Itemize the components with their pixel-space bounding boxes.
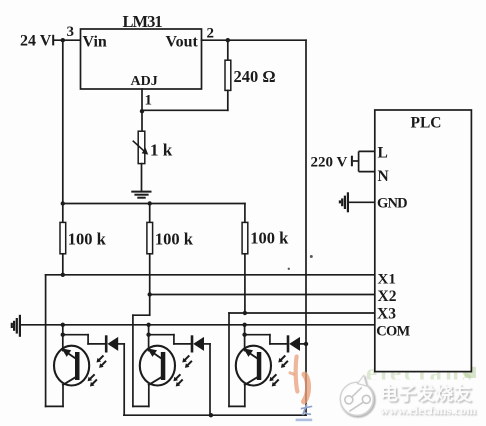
wire collector drop cell 2 bbox=[148, 385, 150, 407]
wire LED anode drop cell 1 bbox=[118, 344, 124, 415]
svg-text:Vin: Vin bbox=[83, 34, 107, 51]
watermark green elecfans ghost bbox=[366, 360, 475, 387]
wire collector drop cell 3 bbox=[244, 385, 246, 407]
wire X1 corner leg down bbox=[45, 275, 47, 407]
junction dot R1 to X1 bbox=[61, 273, 65, 277]
svg-text:3: 3 bbox=[67, 24, 75, 40]
wire GND pin bbox=[349, 201, 375, 203]
svg-text:X1: X1 bbox=[378, 272, 396, 288]
junction dot LED branch cell 3 bbox=[242, 333, 246, 337]
junction dot rail left bbox=[61, 201, 65, 205]
svg-text:100 k: 100 k bbox=[250, 229, 289, 248]
transistor Q3 phototransistor bbox=[236, 346, 271, 386]
svg-text:L: L bbox=[378, 145, 388, 162]
wire emitter loop bottom cell 3 bbox=[229, 405, 245, 407]
svg-text:PLC: PLC bbox=[411, 115, 442, 132]
transistor Q1 phototransistor bbox=[54, 346, 89, 386]
wire ADJ pin 1 stub down to pot bbox=[141, 89, 143, 131]
watermark text dianzifashaoyou bbox=[380, 383, 474, 406]
svg-text:电子发烧友: 电子发烧友 bbox=[380, 383, 472, 404]
svg-text:220 V: 220 V bbox=[311, 155, 348, 171]
junction dot R2 to X2 bbox=[148, 292, 152, 296]
resistor 240 ohm bbox=[225, 60, 231, 90]
resistor R2 100k bbox=[147, 204, 153, 295]
junction dot LED branch cell 1 bbox=[61, 333, 65, 337]
svg-text:X3: X3 bbox=[377, 306, 396, 323]
wire X1 line bbox=[46, 274, 375, 276]
wire emitter riser cell 1 bbox=[62, 325, 64, 351]
wire X2 line bbox=[150, 294, 375, 296]
svg-text:24 V: 24 V bbox=[20, 33, 52, 50]
resistor R3 100k bbox=[242, 204, 248, 314]
wire LED anode drop cell 2 bbox=[204, 344, 210, 415]
wire LED branch cell 1 bbox=[63, 335, 106, 344]
svg-text:100 k: 100 k bbox=[68, 230, 107, 249]
PLC box bbox=[375, 110, 472, 372]
svg-text:240 Ω: 240 Ω bbox=[234, 67, 276, 86]
svg-text:1 k: 1 k bbox=[150, 141, 173, 160]
wire supply rail horizontal bbox=[63, 203, 245, 205]
wire pot to ground bbox=[141, 164, 143, 192]
diode LED D3 bbox=[288, 337, 300, 352]
wire COM line bbox=[21, 324, 375, 326]
resistor R1 100k bbox=[60, 204, 66, 275]
wire emitter loop bottom cell 2 bbox=[133, 405, 149, 407]
wire LED anode to right rail cell 3 bbox=[300, 343, 306, 345]
speck noise bbox=[288, 255, 313, 270]
junction dot 24V rail tap bbox=[61, 38, 65, 42]
svg-text:Vout: Vout bbox=[166, 34, 199, 51]
wire left rail down from 24V to resistor rail bbox=[62, 40, 64, 203]
node 220V supply terminal bbox=[311, 155, 353, 171]
wire LED branch cell 3 bbox=[245, 335, 288, 344]
node 24V supply terminal bbox=[20, 33, 54, 50]
watermark green square bbox=[465, 367, 476, 378]
op-amp U1 LM31 regulator box bbox=[81, 29, 202, 89]
wire emitter riser cell 3 bbox=[244, 325, 246, 351]
junction dot rail middle bbox=[148, 201, 152, 205]
junction dot LED branch cell 2 bbox=[146, 333, 150, 337]
wire collector drop cell 1 bbox=[62, 385, 64, 407]
wire emitter loop bottom cell 1 bbox=[46, 405, 63, 407]
svg-text:X2: X2 bbox=[378, 288, 397, 305]
junction dot LED to rail cell 3 bbox=[304, 342, 308, 346]
wire 24V to Vin pin bbox=[54, 39, 80, 41]
watermark blue fragment bbox=[296, 404, 313, 421]
ground pot earth bbox=[132, 192, 150, 198]
wire bottom LED rail bbox=[124, 414, 306, 416]
junction dot ADJ node bbox=[140, 109, 144, 113]
wire LED branch cell 2 bbox=[149, 335, 192, 344]
wire Vout pin 2 to right rail bbox=[202, 39, 307, 41]
logo elecfans gear bbox=[340, 375, 374, 416]
wire 240 ohm bottom down bbox=[227, 90, 229, 110]
svg-text:www.elecfans.com: www.elecfans.com bbox=[380, 403, 476, 417]
junction dot R3 to X3 bbox=[243, 311, 247, 315]
junction dot 240 ohm tap bbox=[226, 38, 230, 42]
watermark orange stroke bbox=[290, 357, 308, 402]
wire X2 jog down bbox=[133, 295, 150, 407]
svg-text:N: N bbox=[378, 168, 389, 185]
svg-text:1: 1 bbox=[145, 93, 153, 109]
light arrows cell 2 bbox=[173, 356, 191, 386]
svg-text:COM: COM bbox=[376, 324, 410, 340]
diode LED D2 bbox=[192, 337, 204, 352]
wire emitter riser cell 2 bbox=[148, 325, 150, 351]
junction dot COM tap cell 2 bbox=[146, 323, 150, 327]
transistor Q2 phototransistor bbox=[140, 346, 175, 386]
ground GND earth bbox=[340, 192, 348, 212]
wire 220V stub bbox=[353, 160, 359, 162]
svg-text:ADJ: ADJ bbox=[131, 74, 158, 89]
wire 220V bracket to L and N bbox=[359, 151, 375, 171]
junction dot COM tap cell 1 bbox=[61, 323, 65, 327]
potentiometer 1 k bbox=[133, 131, 148, 163]
wire X3 line bbox=[229, 312, 375, 314]
wire down to 240 ohm bbox=[227, 40, 229, 60]
svg-text:2: 2 bbox=[207, 26, 215, 42]
light arrows cell 3 bbox=[269, 356, 287, 386]
diode LED D1 bbox=[106, 337, 118, 352]
ground COM earth left bbox=[12, 316, 20, 336]
watermark text www.elecfans.com bbox=[380, 403, 477, 418]
svg-text:100 k: 100 k bbox=[155, 230, 194, 249]
svg-text:GND: GND bbox=[377, 196, 407, 212]
svg-text:LM31: LM31 bbox=[123, 12, 163, 31]
wire 240 ohm to ADJ node bbox=[142, 109, 228, 111]
junction dot COM tap cell 3 bbox=[242, 323, 246, 327]
wire right rail Vout down bbox=[305, 40, 307, 415]
light arrows cell 1 bbox=[88, 356, 106, 386]
junction dot bottom rail cell2 bbox=[209, 413, 213, 417]
wire X3 corner leg down bbox=[228, 313, 230, 406]
